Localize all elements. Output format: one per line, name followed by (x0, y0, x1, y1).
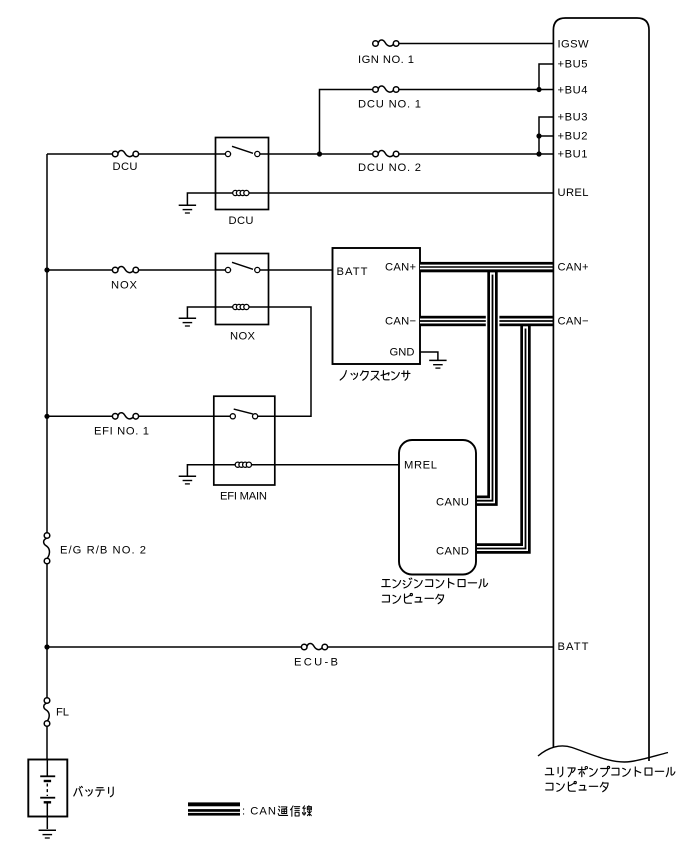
svg-text:: CAN: : CAN (242, 806, 276, 818)
svg-text:CAN−: CAN− (558, 316, 589, 328)
svg-text:E/G R/B NO. 2: E/G R/B NO. 2 (60, 545, 146, 557)
svg-text:BATT: BATT (337, 266, 368, 278)
svg-text:IGN NO. 1: IGN NO. 1 (358, 54, 414, 66)
svg-text:IGSW: IGSW (558, 39, 589, 51)
svg-text:DCU: DCU (113, 161, 138, 173)
svg-text:+BU4: +BU4 (558, 85, 588, 97)
svg-text:DCU NO. 2: DCU NO. 2 (358, 162, 421, 174)
svg-text:+BU3: +BU3 (558, 112, 588, 124)
svg-text:NOX: NOX (230, 331, 256, 343)
svg-text:BATT: BATT (558, 641, 589, 653)
svg-text:CAN+: CAN+ (558, 262, 589, 274)
svg-text:+BU1: +BU1 (558, 149, 588, 161)
svg-text:CAN−: CAN− (385, 316, 416, 328)
svg-text:CAND: CAND (436, 546, 469, 558)
svg-text:+BU5: +BU5 (558, 59, 588, 71)
svg-text:NOX: NOX (111, 280, 138, 292)
svg-text:EFI NO. 1: EFI NO. 1 (94, 426, 149, 438)
svg-text:CAN+: CAN+ (385, 262, 416, 274)
svg-text:GND: GND (390, 347, 415, 359)
svg-text:ECU-B: ECU-B (294, 657, 338, 669)
svg-text:DCU: DCU (229, 215, 254, 227)
svg-text:DCU NO. 1: DCU NO. 1 (358, 99, 421, 111)
svg-text:EFI MAIN: EFI MAIN (220, 491, 267, 503)
svg-text:FL: FL (56, 707, 69, 719)
svg-text:CANU: CANU (436, 497, 469, 509)
svg-text:MREL: MREL (404, 460, 437, 472)
svg-text:+BU2: +BU2 (558, 131, 588, 143)
svg-text:UREL: UREL (558, 187, 589, 199)
